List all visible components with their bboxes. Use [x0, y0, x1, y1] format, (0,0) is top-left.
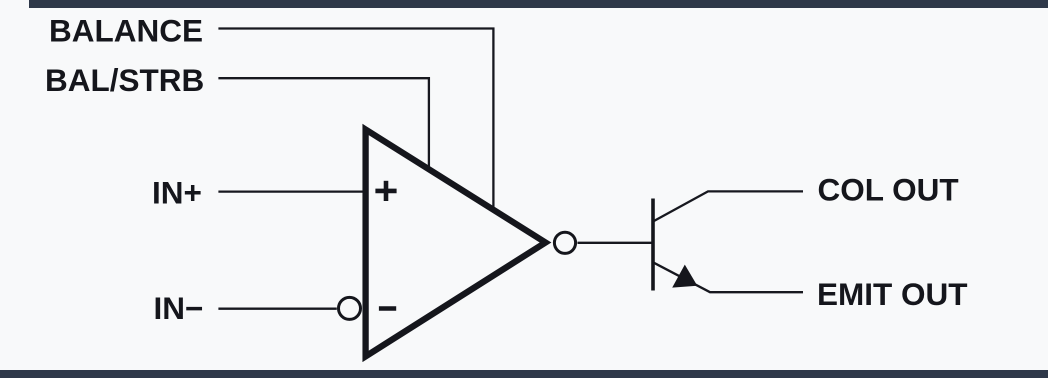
svg-text:IN−: IN− — [154, 290, 204, 326]
svg-text:BALANCE: BALANCE — [49, 12, 203, 48]
svg-text:IN+: IN+ — [152, 175, 202, 211]
svg-text:BAL/STRB: BAL/STRB — [45, 62, 204, 98]
svg-text:EMIT OUT: EMIT OUT — [817, 276, 968, 312]
svg-text:COL OUT: COL OUT — [818, 171, 959, 207]
